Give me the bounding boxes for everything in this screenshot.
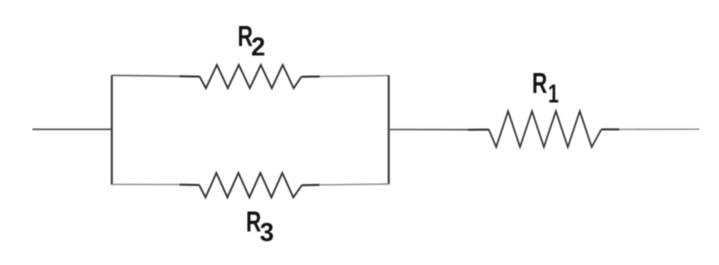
resistor R2 [200, 65, 302, 88]
wire: top branch left segment [112, 74, 180, 77]
svg-text:3: 3 [260, 219, 274, 247]
svg-text:1: 1 [548, 81, 559, 109]
svg-text:2: 2 [251, 33, 265, 61]
resistor R3 [199, 173, 302, 198]
wire: bottom branch right segment [302, 184, 320, 186]
resistor R1 [489, 111, 601, 147]
wire: right output lead [601, 128, 619, 130]
wire: bottom branch left segment [112, 183, 180, 185]
label R2 [238, 21, 266, 62]
wire: top branch right segment [302, 76, 320, 78]
wire: left vertical bus of parallel section [111, 75, 113, 185]
svg-text:R: R [532, 68, 547, 100]
label R3 [246, 207, 274, 247]
wire: right vertical bus of parallel section [388, 75, 390, 184]
wire: middle wire from parallel section to R1 [389, 129, 469, 131]
wire: left input lead [33, 128, 112, 130]
label R1 [532, 68, 559, 109]
